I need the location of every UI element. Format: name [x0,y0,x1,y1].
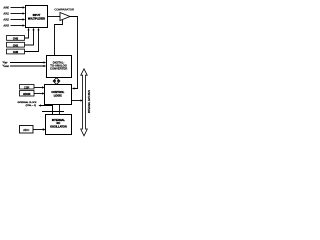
block control logic [45,85,72,105]
arrowhead comparator to control logic [72,87,75,89]
wire VREF- [10,65,44,67]
wire oscillator jog line [42,111,64,113]
arrowhead CSR to control logic [42,86,45,88]
internal data bus double arrow [81,69,88,136]
arrowhead AI1 [23,12,26,14]
block internal RC oscillator [46,115,72,135]
svg-text:(XTAL ÷ 2): (XTAL ÷ 2) [26,104,37,107]
svg-text:ADCR: ADCR [23,92,31,96]
svg-text:OSCILLATOR: OSCILLATOR [50,124,67,128]
wire AI3 input line [11,25,24,27]
arrowhead AI2 [23,18,26,20]
arrowhead AI3 [23,24,26,26]
wire VREF+ [10,62,44,64]
svg-text:CH2: CH2 [13,37,19,41]
arrowhead control to data bus [81,99,84,101]
wire select riser 3 [25,30,39,52]
register box ADCR [20,91,35,97]
wire DAC feedback to comparator [55,19,63,55]
wire select riser 2 [25,30,34,46]
arrowhead riser 2 into mux [32,28,34,31]
wire internal clock output [40,106,53,115]
wire mux output to comparator [48,16,61,18]
arrowhead internal clock [38,104,41,106]
wire ADC box to oscillator [33,129,44,131]
register box CH0 [7,49,25,54]
svg-text:INTERNAL DATA BUS: INTERNAL DATA BUS [88,90,91,113]
arrowhead VREF- [44,65,47,67]
svg-text:AIN2: AIN2 [2,19,9,22]
bus arrow DAC to control logic [54,78,60,85]
comparator triangle [60,13,70,21]
wire CSR to control logic [34,87,43,89]
block digital-to-analog converter [47,56,72,78]
svg-text:CONVERTER: CONVERTER [50,67,67,71]
wire AI1 input line [11,13,24,15]
svg-text:CH0: CH0 [13,50,19,54]
arrowhead riser 1 into mux [27,28,29,31]
svg-text:CONTROL: CONTROL [51,90,64,94]
arrowhead VREF+ [44,61,47,63]
wire ADCR to control logic [34,93,43,95]
svg-text:LOGIC: LOGIC [54,93,62,97]
svg-text:CSR: CSR [24,85,30,89]
svg-text:INTERNAL CLOCK: INTERNAL CLOCK [18,101,37,104]
svg-text:MULTIPLEXER: MULTIPLEXER [28,17,45,20]
arrowhead ADC to oscillator [43,128,46,130]
register box CSR [20,85,35,90]
arrowhead ADCR to control logic [42,92,45,94]
block input multiplexer [26,6,48,28]
wire AI0 input line [11,7,24,9]
svg-text:AIN3: AIN3 [2,25,9,28]
arrowhead riser 3 into mux [37,28,39,31]
svg-text:CH1: CH1 [13,43,19,47]
svg-text:ADC: ADC [23,128,30,132]
wire comparator output [70,17,78,89]
register box ADC [20,126,34,134]
wire control logic to data bus [72,100,82,102]
svg-text:AIN1: AIN1 [2,13,9,16]
wire select riser 1 [25,30,29,39]
svg-text:COMPARATOR: COMPARATOR [54,8,74,12]
arrowhead AI0 [23,6,26,8]
register box CH1 [7,42,25,47]
wire AI2 input line [11,19,24,21]
svg-text:AIN0: AIN0 [2,7,9,10]
wire control to oscillator stub A [52,105,54,115]
register box CH2 [7,36,25,41]
wire control to oscillator stub B [59,105,61,115]
